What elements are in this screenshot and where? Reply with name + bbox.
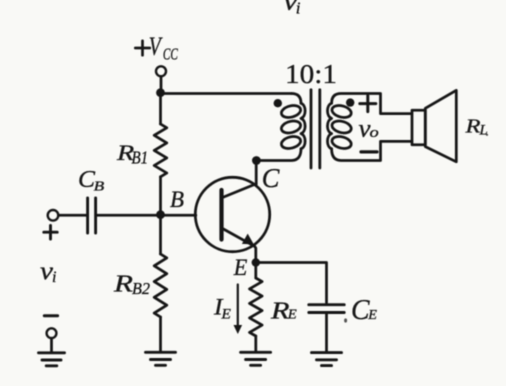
svg-text:C: C [351, 294, 370, 326]
svg-text:B: B [170, 187, 184, 212]
svg-text:10:1: 10:1 [285, 59, 337, 89]
svg-text:E: E [233, 255, 248, 281]
svg-text:CC: CC [163, 45, 178, 64]
svg-text:i: i [52, 269, 56, 286]
svg-text:i: i [296, 0, 301, 17]
svg-text:B: B [94, 179, 105, 194]
svg-text:E: E [367, 307, 378, 322]
svg-text:E: E [287, 308, 298, 323]
svg-text:L: L [479, 123, 488, 139]
svg-text:o: o [370, 125, 380, 141]
svg-text:E: E [220, 307, 230, 323]
svg-text:R: R [113, 272, 134, 298]
svg-text:C: C [262, 162, 280, 193]
svg-text:B1: B1 [132, 148, 149, 168]
svg-text:B2: B2 [132, 279, 150, 298]
